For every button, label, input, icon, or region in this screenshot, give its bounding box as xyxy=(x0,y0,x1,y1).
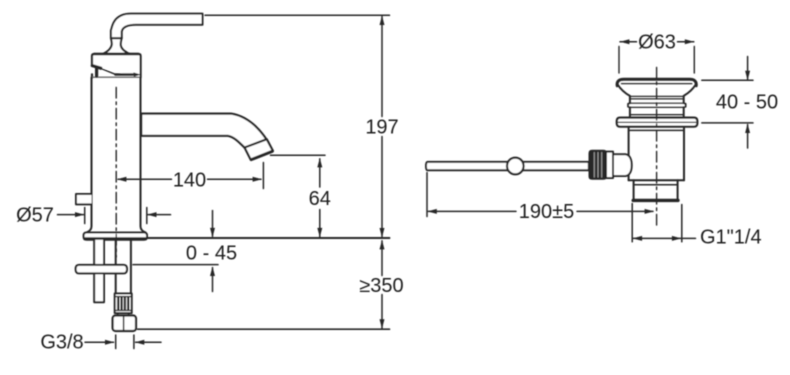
bottom reference line xyxy=(138,328,390,330)
dimension 140 line xyxy=(118,178,261,180)
base flange xyxy=(84,233,147,240)
cap notch step segment xyxy=(92,66,101,69)
svg-text:Ø57: Ø57 xyxy=(16,205,54,227)
dimension 40-50 lower stub xyxy=(747,125,749,149)
drain trumpet left side xyxy=(618,85,630,104)
drain body shoulder line xyxy=(629,129,684,131)
diameter 63 extension lines xyxy=(619,47,694,74)
pop-up rod xyxy=(426,162,589,170)
dimension diameter 57 line left xyxy=(58,214,84,216)
cap tilt indicator line xyxy=(101,69,115,75)
dimension 0-45 lower extension line (plate top) xyxy=(133,264,218,266)
spout aerator tip xyxy=(245,139,273,159)
hose braided section xyxy=(115,294,132,314)
supply hose tube xyxy=(116,240,131,294)
aerator outer thick edge xyxy=(251,151,272,159)
dimension 0-45 upper stub xyxy=(212,211,214,237)
svg-text:G3/8: G3/8 xyxy=(40,332,83,354)
dimension diameter 63 arrows xyxy=(620,41,637,43)
drain neck mid line xyxy=(630,114,684,116)
rod ball joint xyxy=(507,158,524,175)
handle neck and bell base xyxy=(103,38,129,54)
svg-text:140: 140 xyxy=(173,170,206,192)
drain flange top xyxy=(617,79,696,86)
fixing lug xyxy=(76,194,92,204)
dimension 190 witness tick xyxy=(426,173,428,217)
rod knurled nut xyxy=(590,151,607,179)
svg-text:≥350: ≥350 xyxy=(359,275,403,297)
dimension 40-50 extension lines xyxy=(702,80,753,123)
dimension G1 1/4 line xyxy=(633,237,696,239)
dimension 197 extension line (handle top) xyxy=(205,14,390,16)
counter reference line xyxy=(148,237,390,239)
G3/8 witness ticks xyxy=(116,335,134,349)
dimension 140 witness tick xyxy=(262,163,264,189)
hose neck xyxy=(118,313,129,315)
drain body bottom edge xyxy=(629,179,684,181)
dimension 197 line xyxy=(381,17,383,237)
dimension 64 extension line (spout tip) xyxy=(271,154,326,156)
dimension 40-50 upper stub xyxy=(747,57,749,80)
svg-text:40 - 50: 40 - 50 xyxy=(716,92,778,114)
drain centerline xyxy=(656,68,658,226)
faucet centerline xyxy=(115,88,117,258)
dimension diameter 57 line right xyxy=(148,214,171,216)
faucet body left side xyxy=(87,78,92,233)
compression hex nut xyxy=(113,316,136,332)
cartridge cap (top of faucet body) xyxy=(92,54,141,78)
svg-text:Ø63: Ø63 xyxy=(638,32,676,54)
faucet body right side xyxy=(141,78,146,233)
svg-text:G1"1/4: G1"1/4 xyxy=(700,227,762,249)
dimension G3/8 line left xyxy=(85,341,114,343)
drain trumpet right side xyxy=(684,85,696,104)
flange bottom thick edge xyxy=(85,237,146,240)
drain neck sides xyxy=(630,107,684,117)
faucet handle lever xyxy=(111,14,203,39)
svg-text:0 - 45: 0 - 45 xyxy=(186,243,237,265)
drain side notches xyxy=(628,103,686,107)
rod connector body xyxy=(613,154,632,176)
svg-text:197: 197 xyxy=(365,117,398,139)
drain body xyxy=(629,127,684,181)
drain molding band lines xyxy=(630,96,684,99)
dimension G3/8 line right xyxy=(136,341,161,343)
tailpiece thread line xyxy=(634,184,678,186)
cap notch vertical bar xyxy=(95,68,98,76)
dimension 190 line xyxy=(428,210,653,212)
diameter 57 witness ticks xyxy=(85,208,147,224)
cap indicator right arrowhead xyxy=(133,72,141,76)
cap bottom light line xyxy=(93,76,141,78)
cap top edge fill xyxy=(94,53,139,55)
cap indicator horizontal segment xyxy=(115,73,134,75)
threaded stud xyxy=(94,240,104,302)
tailpiece bottom thick edge xyxy=(633,199,678,202)
dimension 64 line xyxy=(319,159,321,237)
drain collar inner line xyxy=(619,121,696,123)
drain tailpiece xyxy=(634,180,678,199)
dimension >=350 line xyxy=(381,241,383,328)
svg-text:64: 64 xyxy=(309,188,331,210)
rod connector collar xyxy=(606,152,613,178)
dimension 0-45 lower stub xyxy=(212,268,214,292)
dimension G1 1/4 extension lines xyxy=(632,204,682,242)
svg-text:190±5: 190±5 xyxy=(519,201,574,223)
mounting plate xyxy=(76,265,127,274)
spout xyxy=(141,114,268,149)
drain flange inner line xyxy=(622,83,692,85)
drain collar xyxy=(617,118,698,127)
